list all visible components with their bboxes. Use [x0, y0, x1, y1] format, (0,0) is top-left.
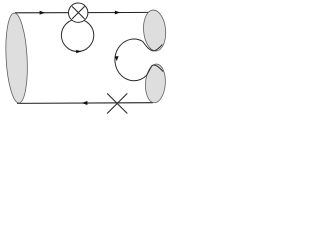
vertex crossed circle	[69, 3, 88, 22]
cross (mass insertion) on bottom line	[107, 93, 127, 113]
wire top line	[15, 11, 151, 13]
wire bottom line	[17, 102, 153, 105]
wire top arrow 1	[40, 11, 46, 15]
wire curl between right blobs	[115, 39, 163, 81]
node bottom-right blob	[144, 63, 166, 103]
wire top arrow 2	[115, 11, 121, 15]
wire loop arrow	[76, 50, 81, 54]
wire bottom arrow (pointing left)	[82, 101, 88, 105]
node left blob	[4, 13, 30, 104]
wire curl arrow	[115, 56, 119, 61]
wire tadpole loop	[61, 19, 93, 51]
node top-right blob	[142, 9, 167, 52]
